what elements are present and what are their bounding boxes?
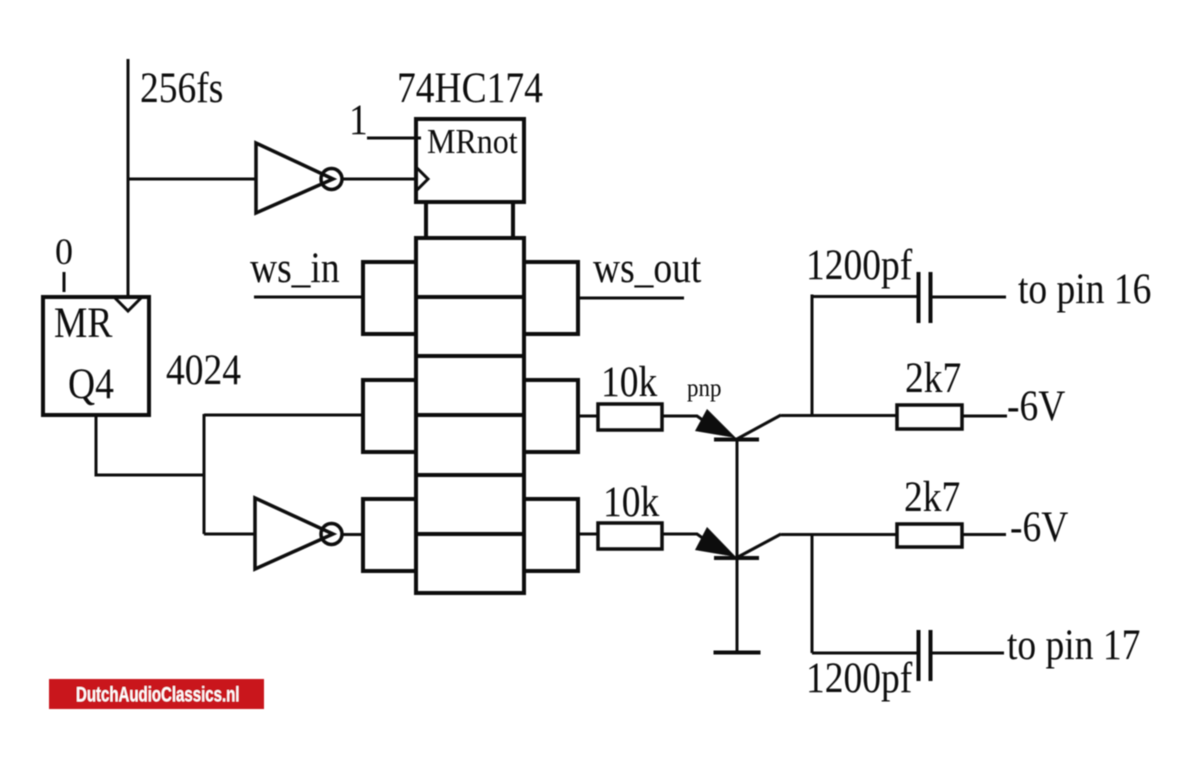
svg-text:1200pf: 1200pf	[806, 240, 913, 288]
svg-text:256fs: 256fs	[140, 63, 223, 111]
svg-text:10k: 10k	[601, 357, 658, 405]
svg-text:DutchAudioClassics.nl: DutchAudioClassics.nl	[76, 682, 239, 706]
svg-text:-6V: -6V	[1007, 381, 1065, 429]
svg-text:to pin 16: to pin 16	[1018, 264, 1151, 312]
svg-text:ws_out: ws_out	[593, 243, 702, 291]
svg-text:ws_in: ws_in	[250, 243, 340, 291]
svg-text:to pin 17: to pin 17	[1007, 620, 1140, 668]
svg-text:74HC174: 74HC174	[397, 63, 543, 111]
svg-text:MRnot: MRnot	[427, 123, 518, 162]
svg-text:2k7: 2k7	[905, 353, 961, 401]
svg-text:1: 1	[349, 95, 368, 143]
svg-text:4024: 4024	[166, 345, 241, 393]
svg-text:1200pf: 1200pf	[806, 653, 913, 701]
svg-text:-6V: -6V	[1010, 502, 1068, 550]
svg-text:10k: 10k	[603, 477, 660, 525]
svg-text:pnp: pnp	[687, 374, 721, 402]
svg-text:0: 0	[55, 232, 73, 272]
svg-text:Q4: Q4	[68, 359, 114, 407]
svg-text:MR: MR	[54, 298, 113, 346]
svg-text:2k7: 2k7	[904, 472, 960, 520]
